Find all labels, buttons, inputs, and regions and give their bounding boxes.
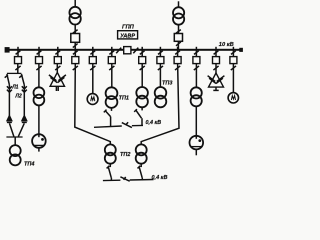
svg-text:Л2: Л2 — [14, 93, 21, 99]
svg-text:ГПП: ГПП — [122, 25, 135, 31]
svg-text:ТП2: ТП2 — [120, 152, 130, 158]
svg-text:10 кВ: 10 кВ — [219, 42, 234, 48]
svg-text:ТП4: ТП4 — [24, 162, 34, 168]
svg-text:0,4 кВ: 0,4 кВ — [146, 120, 162, 126]
svg-text:УАВР: УАВР — [120, 33, 135, 39]
svg-text:ТП1: ТП1 — [119, 96, 129, 102]
svg-text:Л1: Л1 — [11, 85, 18, 91]
svg-text:ТП3: ТП3 — [162, 81, 172, 87]
svg-text:0,4 кВ: 0,4 кВ — [152, 175, 168, 181]
